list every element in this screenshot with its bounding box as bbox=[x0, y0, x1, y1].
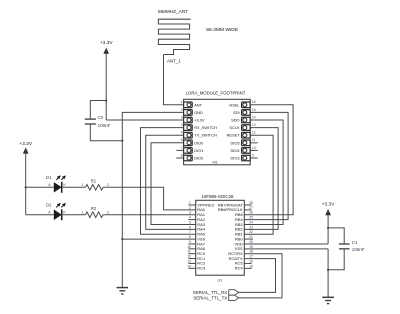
svg-text:12: 12 bbox=[252, 131, 256, 135]
resistor R2 bbox=[86, 212, 104, 218]
svg-text:14: 14 bbox=[187, 264, 191, 268]
wire D2 cathode to R2 bbox=[62, 214, 86, 216]
pic U1 stub pin13 bbox=[188, 262, 195, 264]
svg-text:NSEL: NSEL bbox=[229, 102, 240, 107]
svg-text:9: 9 bbox=[252, 153, 254, 157]
svg-text:1: 1 bbox=[81, 210, 83, 214]
svg-text:5: 5 bbox=[181, 131, 183, 135]
wire D1 cathode to R1 bbox=[62, 186, 86, 188]
svg-text:23: 23 bbox=[249, 225, 253, 229]
svg-text:11: 11 bbox=[187, 250, 191, 254]
module M1 pad pin1 ANT bbox=[184, 102, 193, 108]
svg-text:DIO0: DIO0 bbox=[194, 140, 204, 145]
LED D2 bbox=[54, 210, 62, 220]
svg-text:18: 18 bbox=[249, 250, 253, 254]
power +3.3V (far left) bbox=[23, 147, 29, 153]
net flag SERIAL_TTL_RX bbox=[229, 290, 239, 295]
pic U1 stub pin14 bbox=[188, 267, 195, 269]
svg-text:14: 14 bbox=[252, 115, 256, 119]
module M1 pad pin2 GND bbox=[184, 110, 193, 116]
svg-text:SCLK: SCLK bbox=[229, 125, 240, 130]
stub DIO3 bbox=[250, 157, 258, 159]
svg-text:15: 15 bbox=[252, 108, 256, 112]
svg-text:2: 2 bbox=[107, 183, 109, 187]
svg-text:+3.3V: +3.3V bbox=[19, 141, 32, 147]
wire PIC VSS pin8 to gnd rail bbox=[122, 238, 195, 240]
svg-text:U1: U1 bbox=[218, 278, 223, 283]
wire C2 bottom to gnd rail bbox=[90, 124, 122, 141]
pic U1 stub pin4 bbox=[188, 219, 195, 221]
svg-text:8: 8 bbox=[181, 153, 183, 157]
pic U1 stub pin21 bbox=[244, 238, 253, 240]
net flag SERIAL_TTL_TX bbox=[229, 295, 239, 300]
pic U1 stub pin9 bbox=[188, 243, 195, 245]
svg-text:7: 7 bbox=[189, 230, 191, 234]
wire +3.3V to D1 anode bbox=[26, 186, 54, 188]
module M1 pad pin4 RX_SWITCH bbox=[184, 125, 193, 131]
power +3.3V (right rail) bbox=[325, 209, 331, 215]
ground (right) bbox=[322, 296, 334, 298]
svg-text:19: 19 bbox=[249, 245, 253, 249]
wire +3.3V to D2 anode bbox=[26, 214, 54, 216]
svg-text:11: 11 bbox=[252, 138, 256, 142]
svg-text:25: 25 bbox=[249, 216, 253, 220]
svg-text:SDO: SDO bbox=[231, 118, 239, 123]
module M1 pad pin5 TX_SWITCH bbox=[184, 132, 193, 138]
svg-text:21: 21 bbox=[249, 235, 253, 239]
svg-text:RESET: RESET bbox=[227, 133, 241, 138]
svg-text:ANT: ANT bbox=[194, 102, 202, 107]
wire R2 to PIC RA1 bbox=[103, 214, 196, 216]
svg-text:C1: C1 bbox=[352, 240, 358, 245]
module M1 pad pin6 DIO0 bbox=[184, 140, 193, 146]
svg-text:RC3: RC3 bbox=[197, 266, 206, 271]
wire module GND to gnd rail bbox=[122, 112, 183, 287]
wire C1 bottom branch bbox=[328, 249, 344, 270]
svg-text:5: 5 bbox=[189, 220, 191, 224]
svg-text:2: 2 bbox=[107, 210, 109, 214]
svg-text:12: 12 bbox=[187, 255, 191, 259]
pic U1 stub pin10 bbox=[188, 248, 195, 250]
power +3.3V (left rail) bbox=[103, 48, 109, 54]
junction C2-gnd rail bbox=[121, 140, 123, 142]
wire SDO to PIC RB3 bbox=[244, 120, 283, 224]
svg-text:TX_SWITCH: TX_SWITCH bbox=[194, 133, 217, 138]
svg-text:27: 27 bbox=[249, 206, 253, 210]
svg-text:6: 6 bbox=[189, 225, 191, 229]
capacitor C2 bbox=[85, 118, 96, 120]
svg-text:7: 7 bbox=[181, 146, 183, 150]
svg-text:17: 17 bbox=[249, 255, 253, 259]
svg-text:28: 28 bbox=[249, 201, 253, 205]
wire PIC VSS to gnd rail (right) bbox=[244, 248, 328, 250]
svg-text:1: 1 bbox=[81, 183, 83, 187]
svg-text:26: 26 bbox=[249, 211, 253, 215]
pic U1 stub pin28 bbox=[244, 204, 251, 206]
svg-text:RX_SWITCH: RX_SWITCH bbox=[194, 125, 217, 130]
svg-text:SERIAL_TTL_TX: SERIAL_TTL_TX bbox=[193, 296, 227, 301]
svg-text:C2: C2 bbox=[98, 115, 104, 120]
stub DIO5 bbox=[250, 142, 258, 144]
svg-text:16F886-SOIC28: 16F886-SOIC28 bbox=[202, 194, 235, 199]
svg-text:10: 10 bbox=[252, 146, 256, 150]
svg-text:6: 6 bbox=[181, 138, 183, 142]
resistor R1 bbox=[86, 185, 104, 191]
svg-text:9: 9 bbox=[189, 240, 191, 244]
pic U1 stub pin27 bbox=[244, 209, 251, 211]
svg-text:13: 13 bbox=[252, 123, 256, 127]
svg-text:D2: D2 bbox=[46, 202, 52, 207]
ground (left) bbox=[117, 287, 129, 289]
wire SCLK to PIC RB2 bbox=[244, 128, 278, 230]
svg-text:22: 22 bbox=[249, 230, 253, 234]
wire RX_SWITCH to PIC RA5 bbox=[141, 128, 196, 235]
module M1 pad pin8 DIO2 bbox=[184, 155, 193, 161]
wire SDI to PIC RB4 bbox=[244, 112, 288, 219]
module M1 pad pin15 SDI bbox=[242, 110, 251, 116]
wire R1 to PIC RA0 bbox=[103, 187, 196, 210]
svg-text:16: 16 bbox=[249, 259, 253, 263]
svg-text:868MHZ_ANT: 868MHZ_ANT bbox=[158, 9, 188, 14]
svg-text:4: 4 bbox=[189, 216, 191, 220]
wire PIC VDD to +3.3V rail bbox=[244, 243, 328, 245]
svg-text:R1: R1 bbox=[91, 179, 97, 184]
pic U1 stub pin11 bbox=[188, 253, 195, 255]
wire NSEL to PIC RB5 bbox=[244, 105, 293, 215]
svg-text:DIO3: DIO3 bbox=[231, 156, 240, 161]
wire RESET to PIC RB1 bbox=[244, 135, 273, 234]
module M1 pad pin12 RESET bbox=[242, 132, 251, 138]
svg-text:86.3MM WIDE: 86.3MM WIDE bbox=[206, 27, 239, 33]
svg-text:+3.3V: +3.3V bbox=[194, 118, 205, 123]
pic U1 stub pin1 bbox=[188, 204, 195, 206]
wire DIO0 to PIC RA3 bbox=[151, 143, 196, 225]
svg-text:3: 3 bbox=[181, 115, 183, 119]
wire TX_SWITCH to PIC RA4 bbox=[146, 135, 196, 229]
svg-text:3: 3 bbox=[189, 211, 191, 215]
svg-text:ANT_1: ANT_1 bbox=[167, 58, 181, 63]
wire antenna to module pin1 bbox=[164, 55, 184, 105]
junction C1 top branch bbox=[327, 227, 329, 229]
svg-text:13: 13 bbox=[187, 259, 191, 263]
svg-text:8: 8 bbox=[189, 235, 191, 239]
svg-text:20: 20 bbox=[249, 240, 253, 244]
lora module U=M1 box bbox=[184, 99, 251, 165]
module M1 pad pin11 DIO5 bbox=[242, 140, 251, 146]
junction C2 branch bbox=[105, 99, 107, 101]
svg-text:100nF: 100nF bbox=[98, 123, 111, 128]
pic U1 stub pin12 bbox=[188, 258, 195, 260]
svg-text:M1: M1 bbox=[212, 160, 217, 165]
svg-text:24: 24 bbox=[249, 220, 253, 224]
stub DIO1 bbox=[176, 149, 183, 151]
module M1 pad pin7 DIO1 bbox=[184, 148, 193, 154]
svg-text:10: 10 bbox=[187, 245, 191, 249]
stub DIO4 bbox=[250, 149, 258, 151]
svg-text:2: 2 bbox=[181, 108, 183, 112]
antenna ANT1 868MHz meander bbox=[158, 19, 190, 54]
wire PIC RC6/TX to SERIAL_TTL_RX bbox=[239, 259, 276, 293]
svg-text:LORA_MODULE_FOOTPRINT: LORA_MODULE_FOOTPRINT bbox=[186, 91, 246, 96]
svg-text:15: 15 bbox=[249, 264, 253, 268]
module M1 pad pin14 SDO bbox=[242, 117, 251, 123]
svg-text:SERIAL_TTL_RX: SERIAL_TTL_RX bbox=[193, 290, 227, 295]
junction VSS-gnd rail bbox=[121, 238, 123, 240]
wire +3.3V rail to module pin3 bbox=[106, 119, 183, 121]
LED D1 bbox=[54, 182, 62, 192]
svg-text:16: 16 bbox=[252, 100, 256, 104]
svg-text:SDI: SDI bbox=[233, 110, 240, 115]
wire C2 top branch bbox=[90, 101, 106, 120]
svg-text:+3.3V: +3.3V bbox=[100, 40, 113, 46]
svg-text:2: 2 bbox=[189, 206, 191, 210]
svg-text:R2: R2 bbox=[91, 206, 97, 211]
svg-text:1: 1 bbox=[189, 201, 191, 205]
pic U1 stub pin15 bbox=[244, 267, 251, 269]
svg-text:+3.3V: +3.3V bbox=[322, 202, 335, 208]
module M1 pad pin16 NSEL bbox=[242, 102, 251, 108]
module M1 pad pin13 SCLK bbox=[242, 125, 251, 131]
pic U1 stub pin16 bbox=[244, 262, 251, 264]
module M1 pad pin3 +3.3V bbox=[184, 117, 193, 123]
svg-text:RC4: RC4 bbox=[235, 266, 244, 271]
svg-text:100nF: 100nF bbox=[352, 247, 365, 252]
svg-text:4: 4 bbox=[181, 123, 183, 127]
svg-text:DIO2: DIO2 bbox=[194, 156, 203, 161]
junction D1 branch bbox=[25, 186, 27, 188]
junction C1 bottom bbox=[327, 269, 329, 271]
svg-text:DIO1: DIO1 bbox=[194, 148, 203, 153]
svg-text:GND: GND bbox=[194, 110, 203, 115]
stub DIO2 bbox=[176, 157, 183, 159]
svg-text:DIO5: DIO5 bbox=[231, 140, 240, 145]
pic U1 box bbox=[196, 200, 245, 275]
svg-text:D1: D1 bbox=[46, 175, 52, 180]
svg-text:DIO4: DIO4 bbox=[231, 148, 241, 153]
module M1 pad pin10 DIO4 bbox=[242, 148, 251, 154]
module M1 pad pin9 DIO3 bbox=[242, 155, 251, 161]
capacitor C1 bbox=[339, 243, 350, 245]
svg-text:1: 1 bbox=[181, 100, 183, 104]
wire C1 top branch bbox=[328, 228, 344, 244]
wire PIC RC7/RX to SERIAL_TTL_TX bbox=[239, 254, 282, 298]
